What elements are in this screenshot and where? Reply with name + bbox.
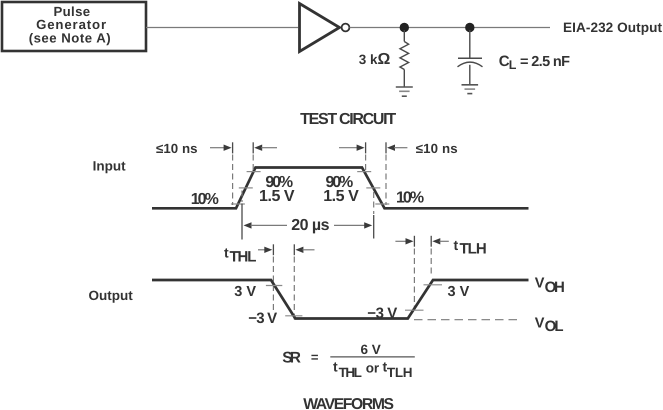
arrow 20us left — [244, 222, 252, 228]
svg-text:3 kΩ: 3 kΩ — [359, 51, 391, 68]
svg-text:≤10 ns: ≤10 ns — [416, 141, 458, 156]
bar fall-time right — [385, 142, 387, 153]
formula SR — [282, 342, 415, 380]
bar tTHL left — [272, 244, 274, 255]
dashed stub above 20us left bar — [241, 191, 243, 203]
arrow tTHL right — [295, 247, 303, 253]
dashed line rise 90% marker — [252, 155, 254, 173]
svg-text:TLH: TLH — [387, 365, 413, 380]
tick output rise -3V — [405, 309, 424, 311]
tick input rise 90% — [247, 171, 261, 173]
tick input rise 1.5V — [239, 187, 253, 189]
svg-text:(see Note A): (see Note A) — [29, 31, 111, 46]
wire bubble to output — [350, 27, 551, 29]
label VOH — [535, 276, 565, 296]
dashed line rise 10% marker — [232, 155, 234, 206]
arrow right rise — [254, 145, 262, 151]
svg-text:=: = — [311, 350, 319, 365]
pulse generator box — [2, 2, 146, 51]
bar rise-time left — [232, 142, 234, 153]
svg-text:L: L — [509, 58, 517, 72]
bar tTHL right — [293, 244, 295, 255]
dashed line fall 90% marker — [365, 155, 367, 173]
inverter U1 — [300, 4, 340, 52]
svg-text:t: t — [333, 359, 338, 375]
tick output fall -3V — [285, 315, 302, 317]
dashed line output fall 3V — [272, 257, 274, 314]
inverter output bubble — [342, 24, 350, 32]
dashed line output rise 3V — [430, 249, 432, 275]
svg-text:6 V: 6 V — [361, 342, 381, 357]
svg-text:or: or — [366, 361, 380, 376]
svg-text:−3 V: −3 V — [248, 310, 277, 327]
svg-text:1.5 V: 1.5 V — [323, 188, 359, 205]
svg-text:EIA-232 Output: EIA-232 Output — [563, 20, 662, 35]
svg-text:1.5 V: 1.5 V — [259, 188, 295, 205]
input waveform — [152, 168, 529, 209]
arrow 20us right — [334, 224, 365, 226]
ground (resistor) — [396, 87, 413, 96]
svg-text:WAVEFORMS: WAVEFORMS — [303, 396, 394, 410]
bar tTLH left — [413, 236, 415, 247]
tick input rise 10% — [231, 203, 245, 205]
svg-text:SR: SR — [282, 350, 301, 367]
bar 20us right — [373, 215, 375, 239]
resistor R 3k — [400, 30, 409, 87]
dashed line output rise -3V — [413, 249, 415, 310]
tick input fall 1.5V — [366, 187, 380, 189]
svg-text:t: t — [224, 245, 229, 261]
svg-text:t: t — [454, 237, 459, 253]
tick output rise 3V — [424, 284, 443, 286]
arrow tTLH right — [432, 238, 440, 244]
arrow right fall — [387, 145, 395, 151]
svg-text:10%: 10% — [191, 191, 219, 208]
arrow left rise — [210, 147, 225, 149]
dashed stub above 20us right bar — [373, 192, 375, 214]
svg-text:Input: Input — [93, 158, 126, 173]
ground (capacitor) — [462, 85, 479, 94]
bar tTLH right — [430, 236, 432, 247]
output waveform — [152, 280, 529, 319]
svg-text:−3 V: −3 V — [367, 305, 397, 322]
label VOL — [535, 316, 564, 335]
tick input fall 10% — [375, 203, 389, 205]
svg-text:= 2.5 nF: = 2.5 nF — [520, 54, 570, 70]
svg-text:3 V: 3 V — [448, 284, 470, 300]
svg-text:OH: OH — [545, 279, 565, 296]
bar fall-time left — [365, 142, 367, 153]
dashed line VOL level — [414, 319, 521, 321]
svg-text:TEST CIRCUIT: TEST CIRCUIT — [300, 111, 396, 128]
tick input fall 90% — [357, 171, 371, 173]
arrow left fall — [339, 147, 358, 149]
svg-text:OL: OL — [545, 318, 564, 335]
svg-text:V: V — [535, 316, 545, 332]
svg-text:Output: Output — [89, 288, 134, 303]
arrow tTLH left — [395, 240, 407, 242]
label tTHL — [224, 245, 256, 266]
wire box to inverter — [146, 27, 298, 29]
tick output fall 3V — [266, 285, 282, 287]
bar rise-time right — [252, 142, 254, 153]
node junction 2 — [465, 23, 474, 32]
bar 20us left — [241, 204, 243, 240]
node junction 1 — [400, 23, 409, 32]
label tTLH — [454, 237, 487, 258]
svg-text:≤10 ns: ≤10 ns — [156, 141, 198, 156]
svg-text:20 µs: 20 µs — [291, 217, 329, 234]
svg-text:TLH: TLH — [460, 241, 487, 258]
svg-text:10%: 10% — [396, 190, 424, 207]
svg-text:V: V — [535, 276, 545, 292]
svg-text:THL: THL — [230, 249, 257, 266]
svg-text:THL: THL — [339, 365, 362, 380]
dashed line output fall -3V — [293, 257, 295, 323]
svg-text:3 V: 3 V — [234, 284, 256, 300]
arrow tTHL left — [258, 249, 267, 251]
dashed line fall 10% marker — [385, 155, 387, 206]
value label CL = 2.5 nF — [499, 53, 570, 72]
capacitor CL — [458, 30, 483, 84]
